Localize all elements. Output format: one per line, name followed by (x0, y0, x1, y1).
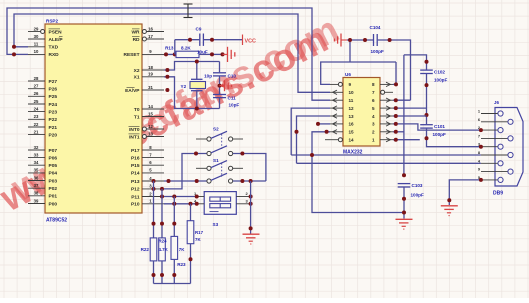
U2 pin 30 (ALE/P) (28, 34, 63, 43)
U2 pin 31 (EA/VP) (125, 85, 164, 94)
wire L2 to DB9 (297, 162, 481, 164)
svg-text:100pF: 100pF (371, 49, 384, 54)
svg-text:14: 14 (349, 138, 355, 143)
wire R23 top lead (172, 197, 176, 237)
svg-text:P00: P00 (49, 201, 58, 207)
resistor R13 8.2K (165, 45, 199, 57)
wire RESET net from U2 pin 9 (164, 53, 176, 55)
svg-text:100pF: 100pF (433, 132, 446, 137)
svg-text:15: 15 (148, 111, 153, 116)
svg-text:7: 7 (478, 133, 480, 138)
ground (sideways) at crystal caps (220, 80, 232, 91)
U6 pin 4 (right row 5) (372, 114, 393, 119)
U2 pin 17 (RD) (132, 34, 164, 43)
svg-text:EA/VP: EA/VP (125, 88, 140, 94)
wire R24 bottom lead (160, 261, 164, 284)
wire riser from VCC row to C104 line (349, 40, 351, 62)
U2 pin 37 (P02) (28, 183, 57, 192)
svg-text:13: 13 (148, 131, 153, 136)
svg-text:C10: C10 (228, 73, 237, 78)
node RXD junction (12, 52, 16, 56)
svg-text:C103: C103 (412, 183, 423, 188)
wire U6 pin 9 up to C104 node (321, 62, 396, 84)
wire resistor bank bottom rail (154, 283, 191, 285)
svg-text:30: 30 (34, 34, 39, 39)
op-amp U2 AT89C52 microcontroller body (45, 19, 142, 224)
J6 pin 1 (478, 109, 503, 117)
svg-text:P17: P17 (131, 148, 140, 154)
U2 pin 4 (P13) (131, 176, 164, 185)
U6 pin 12 (left row 4) (330, 106, 354, 111)
J6 pin 6 (478, 117, 513, 125)
wire S2 output to common vertical (233, 152, 266, 182)
wire R22 top lead (152, 181, 156, 238)
svg-text:AT89C52: AT89C52 (46, 218, 67, 224)
wire C101 bottom to DB9 pin 3 line (425, 129, 481, 147)
U6 pin 9 (left row 1) (330, 82, 352, 87)
wire U6 pin 8 riser to VCC row (393, 62, 398, 86)
svg-text:P23: P23 (49, 109, 58, 115)
U2 pin 2 (P11) (131, 191, 164, 200)
capacitor C101 100pF (420, 124, 446, 137)
svg-text:P10: P10 (131, 202, 140, 208)
svg-text:10: 10 (34, 49, 39, 54)
svg-text:Y2: Y2 (181, 84, 187, 89)
svg-text:T1: T1 (134, 114, 140, 120)
svg-text:S3: S3 (213, 222, 219, 227)
wire RXD net: U2 pin 10 to U6 pin 11 (7, 8, 330, 100)
wire R17 top lead (190, 204, 192, 221)
ground (sideways) at C104 (334, 34, 347, 47)
U2 pin 32 (P07) (28, 145, 57, 154)
wire U6 pin 14 stub (325, 139, 330, 141)
svg-text:P13: P13 (131, 179, 140, 185)
svg-text:C9: C9 (196, 27, 202, 32)
connector J6 DB9 shell (493, 100, 523, 197)
crystal Y2 (181, 79, 206, 90)
capacitor C103 100pF (398, 183, 424, 198)
svg-text:38: 38 (34, 191, 39, 196)
svg-text:U6: U6 (345, 72, 351, 77)
svg-text:17: 17 (148, 34, 153, 39)
wire P1.2 riser to switch S2 (152, 152, 207, 191)
wire TXD net: U2 pin 11 to U6 pin 10 (14, 14, 330, 92)
U6 pin 8 (right row 1) (372, 82, 393, 87)
capacitor C104 100pF (370, 25, 384, 54)
svg-text:P26: P26 (49, 87, 58, 93)
resistor R24 4.7K (159, 238, 169, 261)
op-amp U6 MAX232 body (343, 72, 380, 156)
U2 pin 19 (X1) (134, 72, 164, 81)
U2 pin 16 (WR) (132, 26, 165, 35)
svg-text:29: 29 (34, 26, 39, 31)
switch S2 (196, 127, 243, 156)
svg-text:19: 19 (148, 72, 153, 77)
U6 pin 11 (left row 3) (330, 98, 354, 103)
J6 pin 3 (478, 142, 503, 150)
wire X2 (U2 pin 18) to crystal top rail (164, 62, 220, 73)
node RESET junction dots (164, 52, 177, 56)
U2 pin 11 (TXD) (28, 42, 59, 51)
svg-text:37: 37 (34, 183, 39, 188)
U2 pin 14 (T0) (134, 104, 164, 113)
svg-text:R13: R13 (165, 45, 174, 50)
wire R17 bottom lead (189, 244, 193, 284)
svg-text:3: 3 (372, 122, 375, 127)
svg-text:P25: P25 (49, 94, 58, 100)
svg-text:P06: P06 (49, 155, 58, 161)
svg-text:RSP2: RSP2 (46, 19, 58, 24)
wire DB9 pin 5 to ground (447, 180, 481, 205)
svg-text:16: 16 (148, 26, 153, 31)
svg-text:18: 18 (148, 65, 153, 70)
svg-text:34: 34 (34, 160, 39, 165)
wire ground to C104 (347, 38, 373, 42)
svg-text:10uF: 10uF (197, 50, 208, 55)
node TXD corner junction (12, 45, 16, 49)
capacitor C9 10uF (196, 27, 208, 55)
svg-text:C11: C11 (228, 95, 237, 100)
svg-text:39: 39 (34, 198, 39, 203)
svg-text:RESET: RESET (124, 52, 140, 58)
svg-text:C102: C102 (434, 70, 445, 75)
svg-text:7: 7 (372, 90, 375, 95)
svg-text:5: 5 (372, 106, 375, 111)
svg-text:10p: 10p (204, 73, 212, 78)
no-ERC marker (I-beam) on top wire (184, 4, 193, 18)
capacitor C11 10pF (213, 95, 239, 108)
U6 pin 14 (left row 8) (330, 138, 354, 143)
U2 pin 5 (P14) (131, 168, 164, 177)
svg-text:14: 14 (148, 104, 153, 109)
U2 pin 9 (RESET) (124, 49, 165, 58)
svg-text:INT1: INT1 (129, 134, 140, 140)
svg-text:26: 26 (34, 91, 39, 96)
svg-text:R17: R17 (195, 230, 204, 235)
U2 pin 3 (P12) (131, 184, 164, 193)
resistor R23 4.7K (171, 236, 186, 267)
wire C9 to VCC (204, 38, 243, 42)
wire R24 top lead (160, 189, 164, 238)
wire U6 pin 13 down to DB9 line L2 (295, 116, 331, 163)
U6 pin 10 (left row 2) (330, 90, 354, 95)
svg-text:8: 8 (372, 82, 375, 87)
J6 pin 5 (478, 175, 503, 183)
svg-text:4: 4 (372, 114, 375, 119)
svg-text:12: 12 (349, 106, 355, 111)
svg-text:VCC: VCC (245, 39, 256, 45)
U2 pin 15 (T1) (134, 111, 164, 120)
U2 pin 10 (RXD) (28, 49, 59, 58)
svg-text:P21: P21 (49, 125, 58, 131)
J6 pin 8 (478, 150, 513, 158)
resistor R17 4.7K (187, 221, 203, 244)
svg-text:1: 1 (372, 138, 375, 143)
svg-text:31: 31 (148, 85, 153, 90)
wire U6 pin 5 (393, 106, 427, 110)
svg-text:J6: J6 (494, 100, 499, 105)
svg-text:32: 32 (34, 145, 39, 150)
resistor R22 (141, 238, 157, 261)
wire L1 to DB9 (291, 153, 481, 157)
U2 pin 38 (P01) (28, 191, 57, 200)
node EA/VP stub dot (165, 88, 169, 92)
svg-text:21: 21 (34, 129, 39, 134)
svg-text:P05: P05 (49, 163, 58, 169)
svg-text:P04: P04 (49, 171, 58, 177)
svg-text:36: 36 (34, 175, 39, 180)
wire P1.3 to switch S1 (152, 179, 207, 183)
wire RESET node riser to C9 (175, 38, 200, 55)
svg-text:P11: P11 (131, 194, 140, 200)
svg-text:R23: R23 (177, 262, 186, 267)
J6 pin 2 (478, 125, 503, 133)
U2 pin 22 (P21) (28, 122, 57, 131)
U2 pin 23 (P22) (28, 114, 57, 123)
wire U6 pin 6 (393, 98, 411, 102)
wire C102 bottom down to C101 (425, 74, 429, 124)
switch S1 (196, 158, 243, 183)
U2 pin 12 (INT0) (129, 124, 165, 133)
U6 pin 13 (left row 5) (330, 114, 354, 119)
svg-text:DB9: DB9 (493, 191, 503, 197)
J6 pin 7 (478, 133, 513, 141)
J6 pin 9 (478, 167, 513, 175)
svg-text:P24: P24 (49, 102, 58, 108)
ground below S3 (243, 234, 260, 244)
wire U6 pin 12 down to DB9 line L1 (291, 108, 330, 155)
svg-text:27: 27 (34, 84, 39, 89)
wire C104 down to U6 pin 6 (378, 38, 411, 100)
wire between C10 and C11 (218, 76, 222, 94)
key block S3 (204, 192, 236, 227)
U2 pin 34 (P05) (28, 160, 57, 169)
U6 pin 6 (right row 3) (372, 98, 393, 103)
wire R13 to ground (199, 52, 225, 56)
svg-text:P03: P03 (49, 178, 58, 184)
U6 pin 15 (left row 7) (330, 130, 354, 135)
svg-text:35: 35 (34, 168, 39, 173)
wire U6 pin 1 stub (393, 138, 420, 142)
wire R23 bottom lead (172, 259, 176, 283)
svg-text:8.2K: 8.2K (181, 45, 191, 50)
svg-text:10: 10 (349, 90, 355, 95)
wire link row to C102 top (404, 55, 429, 70)
wire U6 pin 3 to DB9 pin 2 line (393, 122, 481, 130)
S3 pin 4 (194, 198, 204, 204)
svg-text:T0: T0 (134, 107, 140, 113)
U2 pin 6 (P15) (131, 160, 164, 169)
svg-text:11: 11 (34, 42, 39, 47)
U2 pin 7 (P16) (131, 152, 164, 161)
U6 pin 5 (right row 4) (372, 106, 393, 111)
svg-text:9: 9 (349, 82, 352, 87)
svg-text:R22: R22 (141, 247, 150, 252)
U2 pin 1 (P10) (131, 199, 164, 208)
U2 pin 36 (P03) (28, 175, 57, 184)
wire P1.1 to S3 pin 1 (160, 195, 199, 199)
wire crystal bottom lead (195, 91, 199, 111)
svg-text:28: 28 (34, 76, 39, 81)
svg-text:100pF: 100pF (434, 78, 447, 83)
U2 pin 28 (P27) (28, 76, 57, 85)
svg-text:C104: C104 (370, 25, 381, 30)
U2 pin 18 (X2) (134, 65, 164, 74)
svg-text:WR: WR (132, 29, 141, 35)
svg-text:P20: P20 (49, 132, 58, 138)
U2 pin 8 (P17) (131, 145, 164, 154)
svg-text:6: 6 (372, 98, 375, 103)
svg-text:12: 12 (148, 124, 153, 129)
svg-text:S1: S1 (213, 158, 219, 163)
S3 pin 1 (194, 191, 204, 197)
svg-text:11: 11 (349, 98, 354, 103)
svg-text:P07: P07 (49, 148, 58, 154)
svg-text:4.7K: 4.7K (159, 247, 169, 252)
svg-text:P15: P15 (131, 163, 140, 169)
U2 pin 39 (P00) (28, 198, 57, 207)
U2 pin 26 (P25) (28, 91, 57, 100)
wire S1 output to S3 rail (233, 179, 266, 183)
power VCC (243, 35, 256, 46)
svg-text:P01: P01 (49, 194, 58, 200)
wire X1 (U2 pin 19) to crystal bottom rail (164, 75, 220, 109)
capacitor C102 100pF (420, 70, 447, 83)
svg-text:P02: P02 (49, 186, 58, 192)
svg-text:7K: 7K (195, 237, 201, 242)
wire U6 pin 16 stub (316, 122, 330, 126)
U2 pin 33 (P06) (28, 152, 57, 161)
wire S3 common rail to ground (249, 181, 253, 234)
svg-text:15: 15 (349, 130, 355, 135)
svg-text:13: 13 (349, 114, 355, 119)
node DB9 junction dots (479, 128, 483, 182)
U2 pin 35 (P04) (28, 168, 57, 177)
svg-text:X1: X1 (134, 75, 140, 81)
U6 pin 7 (right row 2) (372, 90, 393, 95)
svg-text:RXD: RXD (49, 52, 60, 58)
U2 pin 27 (P26) (28, 84, 57, 93)
svg-text:P22: P22 (49, 117, 58, 123)
svg-text:22: 22 (34, 122, 39, 127)
U2 pin 25 (P24) (28, 99, 57, 108)
S3 pin 2 (236, 191, 252, 199)
wire C11 to bottom rail (219, 98, 221, 108)
S3 pin 3 (236, 198, 252, 206)
svg-text:R24: R24 (159, 239, 168, 244)
wire C103 to ground (402, 188, 406, 219)
wire U6 pin 4 (393, 114, 427, 118)
U6 pin 3 (right row 6) (372, 122, 393, 127)
U6 pin 1 (right row 8) (372, 138, 393, 143)
ground (sideways) at reset RC (223, 47, 235, 62)
wire R22 bottom lead (152, 261, 156, 284)
svg-text:25: 25 (34, 99, 39, 104)
svg-text:ALE/P: ALE/P (49, 37, 64, 43)
J6 pin 4 (478, 158, 503, 166)
capacitor C10 10pF (204, 73, 236, 79)
svg-text:P16: P16 (131, 155, 140, 161)
svg-text:S2: S2 (213, 127, 219, 132)
svg-text:PSEN: PSEN (49, 29, 63, 35)
wire U6 pin 15 to C103 ground node (312, 130, 403, 213)
U6 pin 16 (left row 6) (330, 122, 354, 127)
svg-text:TXD: TXD (49, 45, 59, 51)
svg-text:P14: P14 (131, 171, 140, 177)
svg-text:RD: RD (133, 37, 140, 43)
svg-text:C101: C101 (434, 124, 445, 129)
svg-text:X2: X2 (134, 68, 140, 74)
svg-text:10pF: 10pF (229, 102, 240, 107)
wire P1.0 to S3 pin 4 (164, 202, 199, 206)
svg-text:16: 16 (349, 122, 355, 127)
U2 pin 21 (P20) (28, 129, 57, 138)
U6 pin 2 (right row 7) (372, 130, 393, 135)
svg-text:33: 33 (34, 152, 39, 157)
ground below C103 (396, 219, 413, 229)
U2 pin 24 (P23) (28, 106, 57, 115)
svg-text:2: 2 (372, 130, 375, 135)
U2 pin 13 (INT1) (129, 131, 165, 140)
svg-text:100pF: 100pF (411, 193, 424, 198)
ground at DB9 (441, 206, 458, 216)
wire load-cap rail top (219, 62, 221, 73)
svg-text:P12: P12 (131, 187, 140, 193)
svg-text:23: 23 (34, 114, 39, 119)
svg-text:INT0: INT0 (129, 127, 140, 133)
svg-text:7K: 7K (179, 247, 185, 252)
wire U6 pin 2 and vertical down through C103 (393, 55, 406, 177)
U2 pin 29 (PSEN) (28, 26, 62, 35)
wire crystal top lead (195, 60, 199, 80)
svg-text:24: 24 (34, 106, 39, 111)
svg-text:P27: P27 (49, 79, 58, 85)
